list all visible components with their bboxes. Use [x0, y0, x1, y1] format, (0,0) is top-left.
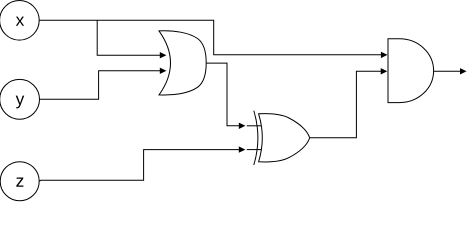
- wire AND output (result): [433, 68, 466, 74]
- input node y: [0, 79, 40, 119]
- wire OR output to XOR gate top input: [206, 63, 262, 129]
- input node x: [0, 1, 39, 41]
- wire x branch to OR gate top input: [97, 20, 166, 58]
- wire x to AND gate top input: [39, 20, 387, 58]
- wire y to OR gate bottom input: [40, 68, 167, 100]
- wire z to XOR gate bottom input: [39, 146, 262, 181]
- xor gate U2: [254, 111, 310, 165]
- wire XOR output to AND gate bottom input: [310, 68, 388, 138]
- and gate U3: [388, 39, 434, 103]
- input node z: [0, 162, 39, 201]
- or gate U1: [159, 31, 206, 95]
